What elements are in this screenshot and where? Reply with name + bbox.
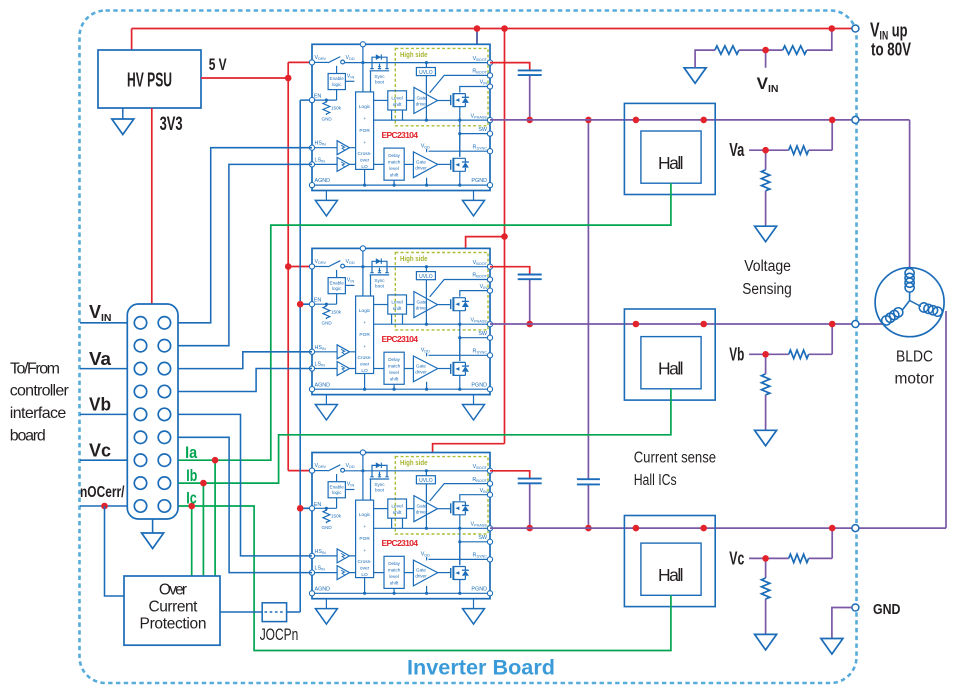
svg-text:Over: Over: [159, 582, 187, 599]
svg-text:Vc: Vc: [729, 548, 744, 568]
cap C2 junction dot: [526, 321, 533, 328]
nOCerr wire to OCP: [105, 506, 125, 596]
EN3 junction dot: [297, 505, 304, 512]
connector pin holes: [134, 317, 170, 513]
JOCPn dashed link: [265, 611, 285, 613]
VDRV2 junction dot: [285, 263, 292, 270]
svg-text:controller: controller: [10, 383, 70, 400]
VIN divider ground: [684, 68, 706, 84]
VIN long drop rail: [433, 29, 505, 453]
hall sensor 2: [624, 309, 715, 400]
nOCerr junction dot: [101, 503, 108, 510]
VIN divider node dot: [762, 47, 769, 54]
svg-text:JOCPn: JOCPn: [260, 625, 299, 644]
svg-text:interface: interface: [10, 405, 67, 422]
svg-text:5 V: 5 V: [209, 56, 227, 74]
HV PSU ground: [112, 119, 134, 135]
hall sensor 1: [624, 103, 715, 194]
svg-text:To/From: To/From: [10, 360, 60, 377]
bootstrap cap C2: [518, 275, 542, 280]
phase B hall dots: [633, 321, 640, 328]
svg-text:to 80V: to 80V: [871, 39, 911, 59]
connector body: [127, 304, 178, 519]
VIN rail junction dot 2: [501, 25, 508, 32]
gate driver IC U3 EPC23104 (phase C): [309, 450, 492, 624]
Ia OCP branch: [214, 460, 216, 576]
cap C1 junction dot: [526, 117, 533, 124]
VIN mid junction dot: [501, 233, 508, 240]
svg-text:Ib: Ib: [186, 467, 197, 485]
Ib branch junction dot: [200, 480, 207, 487]
VIN divider mid wires: [739, 50, 783, 68]
JOCPn output wire: [287, 611, 301, 613]
svg-text:Ia: Ia: [185, 444, 198, 462]
connector left wires: [80, 323, 127, 506]
svg-text:HV PSU: HV PSU: [127, 70, 172, 92]
connector row6 wire to LS3: [178, 437, 312, 572]
svg-text:Hall ICs: Hall ICs: [634, 472, 677, 489]
connector row4 wire to LS2: [178, 369, 312, 392]
divider RVa: [749, 117, 835, 242]
svg-text:motor: motor: [895, 371, 935, 388]
connector row3 wire to HS2: [178, 352, 312, 369]
VDRV rail vertical: [288, 62, 312, 470]
svg-text:Current sense: Current sense: [634, 449, 716, 466]
over current protection box: [124, 576, 220, 645]
hall1 signal wire Ia: [178, 183, 671, 460]
dc link cap wiring: [587, 120, 589, 528]
phase A hall dots: [633, 117, 640, 124]
bootstrap cap C3: [518, 479, 542, 484]
gate driver IC U2 EPC23104 (phase B): [309, 246, 492, 420]
svg-text:Vb: Vb: [89, 394, 111, 415]
connector ground stub: [152, 519, 154, 533]
dc link cap: [577, 479, 600, 484]
motor coil B: [880, 306, 905, 327]
divider RVb: [749, 321, 835, 446]
svg-text:Voltage: Voltage: [744, 258, 791, 275]
5V wire: [201, 77, 288, 79]
phase A line: [490, 120, 910, 268]
svg-text:Ic: Ic: [186, 490, 197, 508]
VIN drop to IC1 top: [476, 29, 478, 45]
svg-text:Vb: Vb: [729, 344, 744, 364]
motor coil star point: [902, 292, 921, 311]
inverter board dashed border: [80, 11, 857, 684]
dc link bottom junction dot: [585, 525, 592, 532]
motor coil C: [918, 302, 943, 318]
connector row2 wire to LS1: [178, 164, 312, 345]
phase A border node: [852, 116, 859, 123]
bootstrap cap C2 wiring: [490, 267, 530, 275]
hall2 signal wire Ib: [178, 389, 671, 483]
GND wire: [832, 608, 852, 639]
svg-text:board: board: [10, 427, 46, 444]
VIN divider resistor R1: [715, 46, 739, 54]
Ia branch junction dot: [212, 457, 219, 464]
Ic branch junction dot: [188, 503, 195, 510]
EN2 junction dot: [297, 301, 304, 308]
motor circle: [875, 268, 944, 337]
VIN top rail: [132, 28, 854, 30]
VIN divider resistor R2: [783, 46, 807, 54]
connector ground: [142, 533, 164, 549]
bootstrap cap C1 wiring: [490, 63, 530, 71]
svg-text:BLDC: BLDC: [896, 349, 933, 366]
phase C border node: [852, 525, 859, 532]
Ib OCP branch: [202, 483, 204, 576]
svg-text:Vc: Vc: [89, 439, 111, 460]
svg-text:Inverter Board: Inverter Board: [407, 656, 555, 680]
svg-text:Current: Current: [149, 598, 199, 615]
OCP text: [140, 582, 207, 633]
VIN top rail border node: [852, 25, 859, 32]
svg-text:Sensing: Sensing: [742, 281, 792, 298]
svg-text:3V3: 3V3: [160, 114, 183, 135]
phase C line: [490, 311, 946, 528]
svg-text:Va: Va: [89, 348, 112, 369]
VIN rail tap dot: [829, 25, 836, 32]
wire VIN rail to HV PSU top: [131, 29, 133, 51]
divider RVc: [749, 525, 835, 650]
bootstrap cap C1: [518, 70, 542, 75]
OCP to JOCPn wire: [220, 611, 262, 613]
bootstrap cap C3 wiring: [490, 471, 530, 479]
phase B border node: [852, 321, 859, 328]
dc link top junction dot: [585, 117, 592, 124]
3V3 wire to connector: [151, 108, 153, 304]
gate driver IC U1 EPC23104 (phase A): [309, 42, 492, 216]
VIN rail junction dot 1: [474, 25, 481, 32]
EN rail vertical: [300, 100, 312, 612]
svg-text:nOCerr/: nOCerr/: [80, 484, 125, 501]
5V junction dot: [285, 75, 292, 82]
phase C hall dots: [633, 525, 640, 532]
Ic OCP branch: [191, 506, 193, 576]
phase B line: [490, 323, 883, 325]
connector row1 wire to HS1: [178, 148, 312, 323]
VIN divider to rail: [807, 29, 832, 51]
motor coil A: [905, 269, 914, 293]
To/From controller interface board text: [10, 360, 70, 444]
JOCPn box: [262, 603, 286, 622]
GND symbol right: [821, 639, 843, 655]
hall3 signal wire Ic: [178, 506, 671, 651]
GND border node: [852, 604, 859, 611]
hall sensor 3: [624, 516, 715, 607]
svg-text:GND: GND: [873, 602, 901, 618]
cap C3 junction dot: [526, 525, 533, 532]
HV PSU box: [98, 50, 201, 108]
svg-text:Va: Va: [729, 140, 745, 160]
connector row5 wire to HS3: [178, 414, 312, 556]
VIN divider ground lead: [695, 50, 715, 68]
svg-text:Protection: Protection: [140, 615, 207, 632]
HV PSU ground stub: [122, 108, 124, 119]
